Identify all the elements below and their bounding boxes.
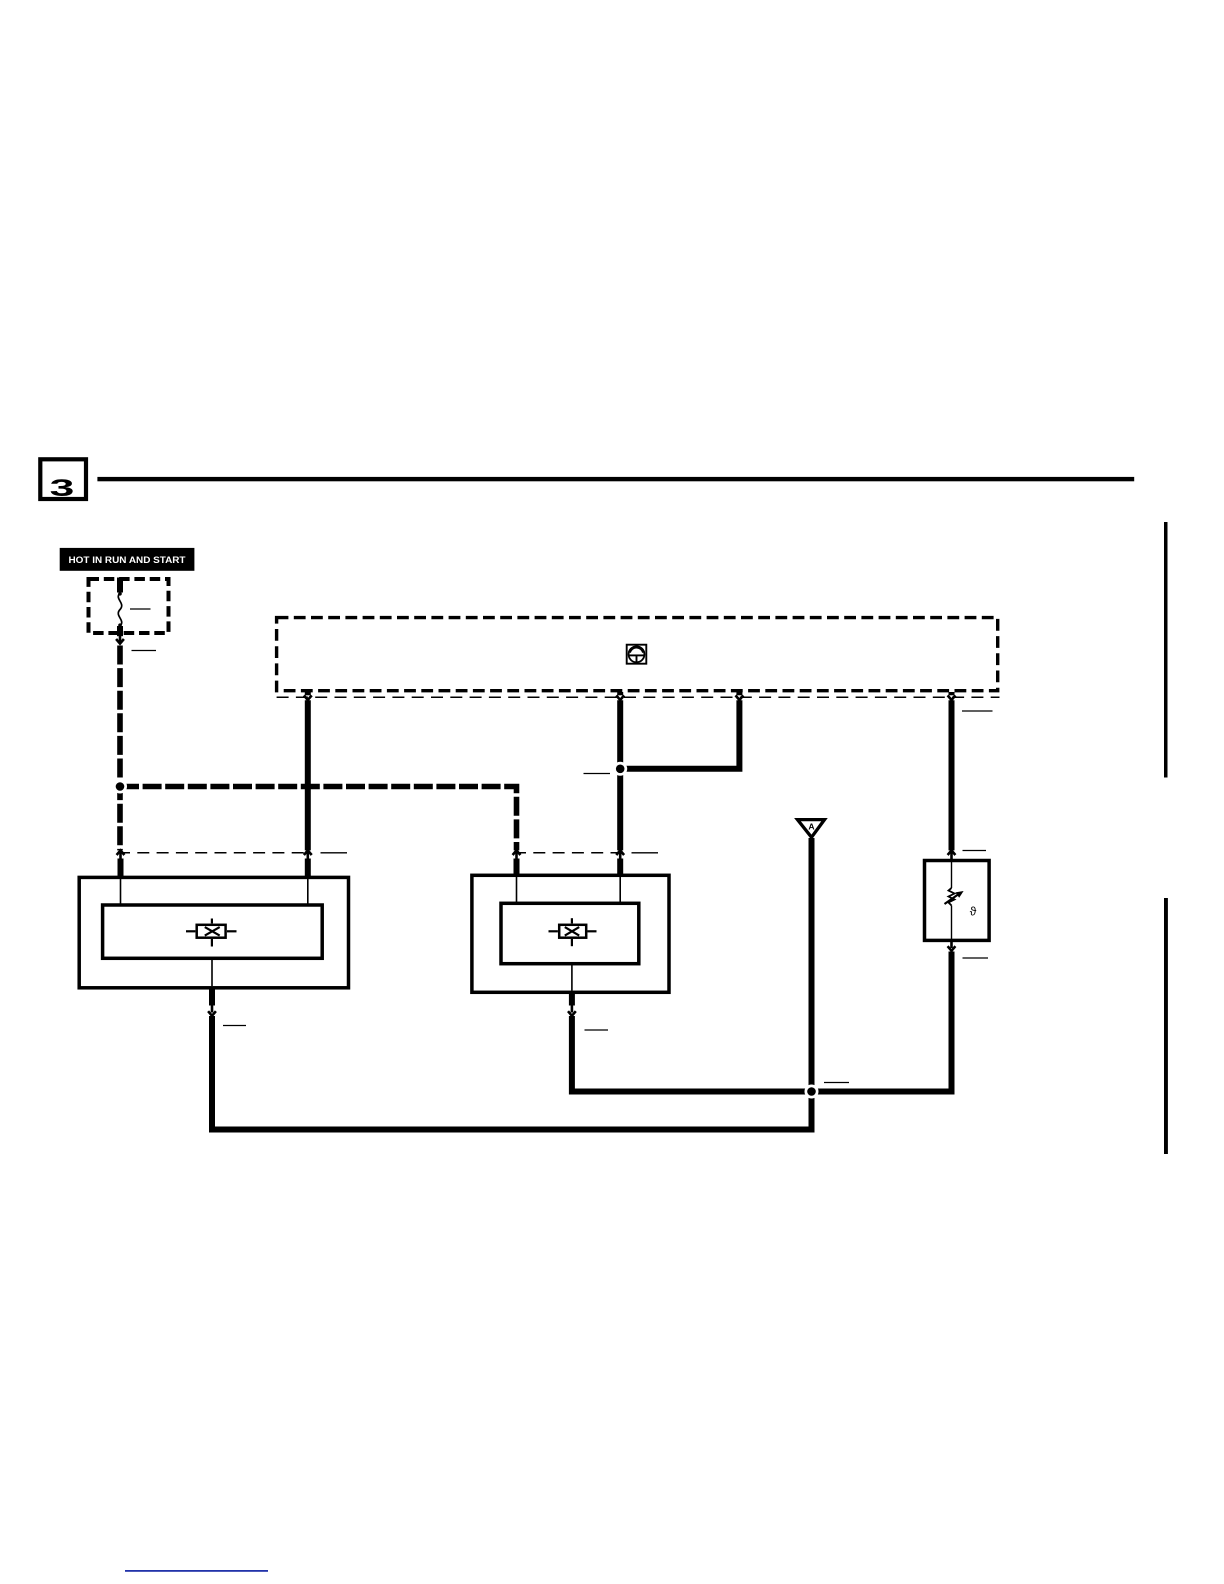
arrow up at right jet pin x=620.2	[616, 850, 624, 858]
wire: triangle A down to ground run	[809, 838, 815, 1132]
junction at (620.2,768.8)	[613, 762, 627, 776]
wire: fuse output dashed vertical	[117, 646, 123, 851]
footer blue rule	[125, 1570, 268, 1572]
arrow down at module output x=739.4	[736, 692, 744, 700]
connector line above left jet (thin dashed)	[118, 852, 311, 854]
wire: dashed branch to right jet	[120, 787, 517, 851]
arrow down at thermistor bottom	[948, 941, 956, 951]
pin stub left jet x=120.5	[118, 859, 124, 878]
left jet internal pin line (left)	[120, 879, 122, 905]
right jet internal pin line (left)	[516, 877, 518, 903]
svg-text:ϑ: ϑ	[970, 905, 977, 919]
wire label line below fuse	[132, 650, 157, 652]
right jet internal pin line (right)	[619, 877, 621, 903]
section bar right margin (lower)	[1164, 898, 1168, 1154]
thermistor internal element	[945, 859, 977, 940]
arrow: fuse output	[116, 636, 124, 644]
label below right jet	[585, 1029, 609, 1031]
wire: module output to right jet (x=620.2)	[617, 700, 623, 850]
label right of thermistor top	[963, 850, 987, 852]
svg-text:3: 3	[50, 474, 75, 501]
left jet internal pin line (right)	[307, 879, 309, 905]
wire: right jet ground stub	[569, 992, 575, 1006]
arrow down at module output x=307.8	[304, 692, 312, 700]
pin stub left jet x=307.8	[305, 859, 311, 878]
left jet inner box	[103, 905, 323, 958]
junction: fuse branch	[113, 780, 127, 794]
arrow down below right jet	[568, 1005, 576, 1016]
arrow down at module output x=951.5	[948, 692, 956, 700]
fuse element	[118, 578, 122, 637]
arrow down below left jet	[208, 1005, 216, 1016]
arrow down at module output x=620.2	[616, 692, 624, 700]
wire: module branch x=739.4 to junction	[620, 700, 739, 769]
left jet stem line	[211, 958, 213, 986]
arrow up at right jet pin x=516.5	[513, 850, 521, 858]
steering wheel icon	[627, 645, 647, 664]
wire label left of junction	[584, 773, 611, 775]
pin stub right jet x=516.5	[514, 859, 520, 878]
label right of right jet connector	[632, 852, 659, 854]
page number box "3"	[40, 459, 86, 501]
label right of left jet connector	[321, 852, 348, 854]
connector line under module (thin dashed)	[277, 696, 1000, 698]
label below thermistor	[963, 957, 989, 959]
wire label right of x=951.5 wire	[962, 710, 993, 712]
off-page connector triangle A	[798, 820, 825, 838]
label: HOT IN RUN AND START	[60, 548, 195, 571]
svg-text:A: A	[808, 822, 814, 832]
fuse box (dashed)	[89, 579, 169, 633]
arrow up at left jet pin x=120.5	[117, 850, 125, 858]
right jet component outer box	[472, 875, 669, 992]
heating element symbol (left)	[186, 919, 237, 947]
header rule	[97, 477, 1134, 481]
junction at (811.5,1091.5)	[805, 1085, 819, 1099]
right jet inner box	[501, 903, 639, 963]
connector line above right jet (thin dashed)	[514, 852, 622, 854]
label near ground junction	[824, 1082, 849, 1084]
arrow up at thermistor top	[948, 850, 956, 859]
svg-text:HOT IN RUN AND START: HOT IN RUN AND START	[69, 555, 186, 566]
fuse value label line	[130, 608, 151, 610]
wire: right jet to thermistor ground run	[572, 952, 952, 1092]
section bar right margin (upper)	[1164, 522, 1168, 778]
label below left jet	[223, 1025, 246, 1027]
control module (dashed box)	[277, 618, 998, 691]
right jet stem line	[571, 964, 573, 991]
heating element symbol (right)	[549, 918, 597, 946]
thermistor box	[925, 861, 990, 941]
wire: module output to left jet (x=307.8)	[305, 700, 311, 850]
left jet component outer box	[79, 877, 348, 987]
pin stub right jet x=620.2	[617, 859, 623, 878]
wire: module output to thermistor (x=951.5)	[949, 700, 955, 850]
wire: left jet ground stub	[209, 990, 215, 1006]
wire: left jet to ground run	[212, 1016, 815, 1130]
arrow up at left jet pin x=307.8	[304, 850, 312, 858]
